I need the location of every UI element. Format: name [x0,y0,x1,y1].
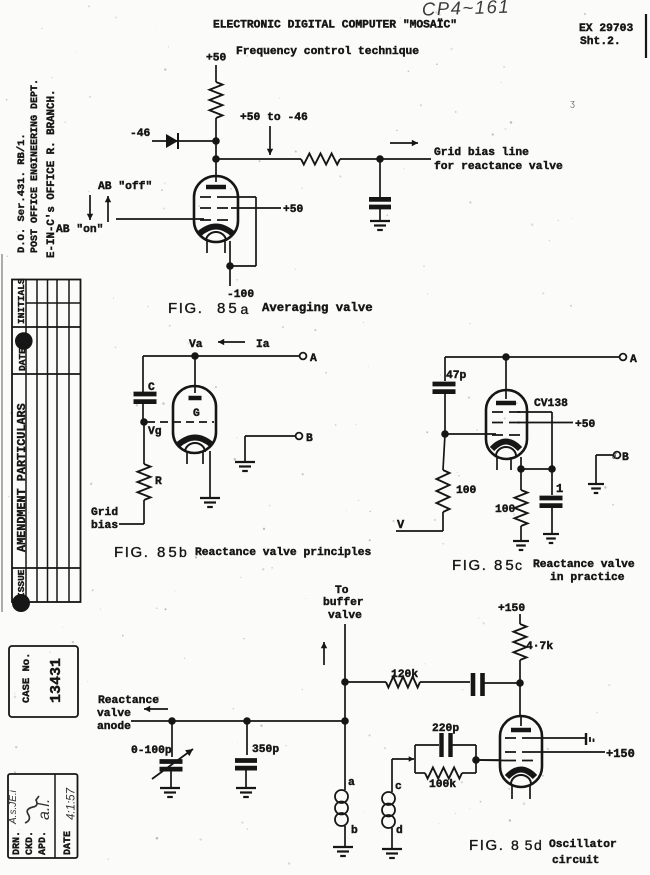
svg-text:d: d [534,837,543,853]
85b wire B to ground [245,435,296,437]
85d node to 120k [341,678,349,686]
85c anode resistor 100 [443,434,445,470]
85d wire cap to node [481,682,520,684]
85d grid g3 dashes with termination [505,737,533,739]
svg-text:anode: anode [97,721,131,733]
grid bias wire right segment [340,158,431,160]
svg-text:c: c [515,557,524,573]
85b cathode [178,438,212,446]
85d cathode [507,770,535,778]
85d arrow to reactance valve [144,708,168,710]
V1 grid 3 dashes [200,196,231,198]
85c capacitor 47p [444,357,446,381]
right border segment [645,14,647,58]
wire -46 to node [152,140,216,142]
series resistor [301,154,340,165]
V1 g2 wire to +50 [231,207,281,209]
svg-text:Va: Va [189,339,203,351]
svg-text:To: To [335,585,349,597]
85d coil a-b [344,721,346,790]
85c cathode node wire [521,468,552,470]
svg-text:Grid bias line: Grid bias line [434,147,529,159]
85c cathode [492,442,520,450]
V1 cathode [199,227,233,235]
scan speckle noise [423,265,425,267]
svg-text:a: a [348,777,355,789]
V1 cathode lead [229,241,231,286]
node diode junction [212,137,220,145]
85d capacitor 350p [243,717,251,725]
svg-text:b: b [351,825,358,837]
85d node anode [516,679,524,687]
table vertical rule 3 [56,279,58,602]
85c grid row g3 [492,411,520,413]
85d capacitor 220p [415,744,439,746]
V1 g3 tie to cathode line [228,196,256,198]
svg-text:Reactance valve: Reactance valve [533,559,635,571]
svg-text:bias: bias [91,520,118,532]
85b terminal B [296,433,303,440]
85c ground under cathode resistor [513,540,529,542]
85b capacitor C [142,356,144,394]
svg-text:Reactance: Reactance [98,695,159,707]
V1 grid 2 dashes [200,207,231,209]
svg-text:4:1:57: 4:1:57 [66,787,78,820]
svg-text:+150: +150 [498,603,525,615]
svg-text:valve: valve [97,708,131,720]
svg-text:for reactance valve: for reactance valve [434,161,563,173]
85b top wire [143,355,300,357]
svg-text:b: b [179,544,188,560]
direction arrow right [390,142,418,144]
svg-text:Grid: Grid [91,507,118,519]
svg-text:FIG.: FIG. [168,300,204,317]
85b wire R to grid bias [143,500,145,524]
85d control grid [505,760,533,762]
ink blot at ISSUE row [12,594,30,612]
svg-text:A.s.JE.i: A.s.JE.i [8,789,19,825]
svg-text:47p: 47p [446,370,467,382]
svg-text:100: 100 [495,504,516,516]
85c top wire [445,356,619,358]
svg-text:CKD.: CKD. [25,831,36,855]
anode load resistor [210,82,223,118]
85d ground under coil a-b [333,846,353,848]
85c node anode [502,353,510,361]
85d variable capacitor 0-100p [168,717,176,725]
scan shadow left edge [1,254,3,612]
85c valve envelope CV138 [486,390,527,459]
wire +50 to resistor [215,65,217,82]
85b current arrow Ia [218,341,245,343]
svg-text:R: R [155,476,162,488]
table vertical rule 2 [47,279,49,602]
svg-text:13431: 13431 [48,658,65,703]
85d anode bar [511,728,531,733]
85d resistor 100k [415,772,425,774]
svg-text:POST OFFICE ENGINEERING DEPT.: POST OFFICE ENGINEERING DEPT. [30,79,41,253]
85c wire to V terminal [442,512,444,531]
svg-text:0-100p: 0-100p [131,745,172,757]
svg-text:G: G [193,408,200,420]
85d wire network to grid [476,759,501,761]
drn box divider [54,774,56,858]
85d buffer wire [344,624,346,721]
85b node Va [191,352,199,360]
table label column divider [25,279,27,602]
85c ground at B [588,483,604,485]
table row line initials/date [12,326,81,328]
85b heater legs [186,451,188,464]
85c terminal A [620,354,627,361]
85c cathode resistor 100 [520,469,522,490]
svg-text:85: 85 [494,557,517,574]
85c wire node to grid [445,433,496,435]
svg-text:a: a [241,301,250,317]
svg-text:INITIALS: INITIALS [16,278,27,324]
svg-text:EX 29703: EX 29703 [579,23,633,35]
85b node Vg [140,418,148,426]
svg-text:DATE: DATE [63,831,74,855]
85d wire to 120k [345,681,386,683]
table row line particulars/issue [12,567,81,569]
table vertical rule 4 [68,279,70,602]
svg-text:D.O. Ser.431. RB/1.: D.O. Ser.431. RB/1. [16,133,28,253]
node cathode -100 [226,262,234,270]
svg-text:A: A [630,354,637,366]
svg-text:+50: +50 [575,419,596,431]
85b anode [189,396,202,401]
drn/ckd/apd box [8,774,78,858]
svg-text:C: C [148,382,155,394]
85d grid network frame [414,745,416,773]
svg-text:AMENDMENT PARTICULARS: AMENDMENT PARTICULARS [15,403,29,552]
V1 grid 1 dashes [200,219,231,221]
85c wire B to ground [596,454,614,456]
svg-text:A: A [310,353,317,365]
svg-text:d: d [396,825,403,837]
amendment table frame [12,280,81,603]
svg-text:buffer: buffer [323,597,364,609]
node at capacitor tap [376,155,384,163]
85c ground under capacitor [543,533,559,535]
svg-text:Reactance valve principles: Reactance valve principles [195,547,371,559]
85d coupling capacitor [471,673,476,696]
85d ground under 0-100p [160,787,180,789]
svg-text:CP4~161: CP4~161 [422,0,511,20]
svg-text:B: B [622,452,629,464]
85d oscillator valve envelope [500,716,542,787]
svg-text:AB "off": AB "off" [98,181,152,193]
svg-text:Frequency control technique: Frequency control technique [236,46,419,58]
svg-text:FIG.: FIG. [469,837,505,854]
svg-text:c: c [395,781,402,793]
svg-text:Vg: Vg [148,426,162,438]
85d coil c-d [391,759,393,792]
V1 heater legs [206,240,208,253]
85c cathode lead [520,457,522,469]
85c grid row g2 to +50 [492,422,520,424]
svg-text:220p: 220p [432,723,459,735]
svg-text:+150: +150 [606,747,635,761]
svg-text:DRN.: DRN. [12,831,23,855]
svg-text:AB "on": AB "on" [56,224,103,236]
table row line (initials inner) [26,302,81,304]
node grid bias line [212,155,220,163]
V1 control grid wire from AB switch [116,218,204,220]
85c grid row g1 [492,434,520,436]
85c node grid junction [441,430,449,438]
table row line date/particulars [12,373,81,375]
85d up arrow [323,642,325,665]
svg-text:circuit: circuit [552,855,599,867]
diode [166,134,178,148]
svg-text:100: 100 [456,485,477,497]
85b grid dashed line to Vg [147,421,214,423]
85b grid resistor R [143,422,145,464]
svg-text:ISSUE: ISSUE [16,569,27,598]
svg-text:CASE No.: CASE No. [21,653,33,703]
svg-text:FIG.: FIG. [452,557,488,574]
smoothing capacitor [379,159,381,199]
svg-text:ELECTRONIC DIGITAL COMPUTER "M: ELECTRONIC DIGITAL COMPUTER "MOSAÏC" [213,19,457,32]
svg-text:8 5: 8 5 [511,837,533,853]
85d wire 120k to coupling cap [420,681,470,683]
85c cathode capacitor 1 [551,469,553,495]
svg-text:+50: +50 [206,53,227,65]
svg-text:4·7k: 4·7k [526,641,553,653]
svg-text:85: 85 [217,300,240,317]
85d ground under 350p [236,787,256,789]
svg-text:+50: +50 [283,204,304,216]
85d heater legs [511,785,513,799]
svg-text:valve: valve [328,610,362,622]
85b valve envelope [173,386,216,453]
svg-text:120k: 120k [391,669,418,681]
grid bias wire left segment [216,158,301,160]
svg-text:V: V [397,518,405,532]
85b cathode lead to ground [209,451,211,498]
svg-text:Sht.2.: Sht.2. [580,36,621,48]
svg-text:B: B [306,433,313,445]
85d screen grid to +150 [505,751,533,753]
svg-text:1: 1 [556,482,563,496]
85d ground under coil c-d [382,848,402,850]
wire resistor to node [215,118,217,141]
85b cathode ground [200,497,220,499]
svg-text:100k: 100k [429,779,456,791]
svg-text:ɗ: ɗ [612,452,617,461]
svg-text:in practice: in practice [550,572,625,584]
svg-text:DATE: DATE [17,348,28,371]
85d grid network left node arrow [392,758,414,760]
ground under capacitor [370,220,390,222]
85d wire node to valve [519,683,521,716]
85c heater legs [496,457,498,470]
table vertical rule 1 [36,279,38,602]
svg-text:APD.: APD. [38,831,49,855]
85d resistor 120k [386,677,420,688]
svg-text:Oscillator: Oscillator [549,839,617,851]
ink blot on DATE row [15,332,33,350]
valve V1 envelope (averaging valve) [194,176,238,242]
svg-text:Ia: Ia [256,339,270,351]
case number box [9,646,78,717]
svg-text:FIG.: FIG. [114,544,150,561]
85c terminal B [614,452,621,459]
svg-text:+50 to -46: +50 to -46 [240,112,308,124]
85b terminal A [300,353,307,360]
85b ground at B [235,461,255,463]
85c anode bar [496,401,516,406]
svg-text:a.l.: a.l. [36,799,53,820]
svg-text:ʒ: ʒ [570,98,575,108]
annotation arrow down [269,126,271,155]
svg-text:-46: -46 [130,128,151,140]
85d node to tank [341,717,349,725]
V1 anode [206,185,226,190]
svg-text:Averaging valve: Averaging valve [262,301,373,315]
svg-text:85: 85 [157,544,180,561]
svg-text:350p: 350p [252,744,279,756]
AB off arrow (down) [89,195,91,220]
85d resistor 4.7k [514,624,527,660]
AB on arrow (up) [107,196,109,222]
85d main anode wire [131,720,345,722]
svg-text:CV138: CV138 [534,398,568,410]
